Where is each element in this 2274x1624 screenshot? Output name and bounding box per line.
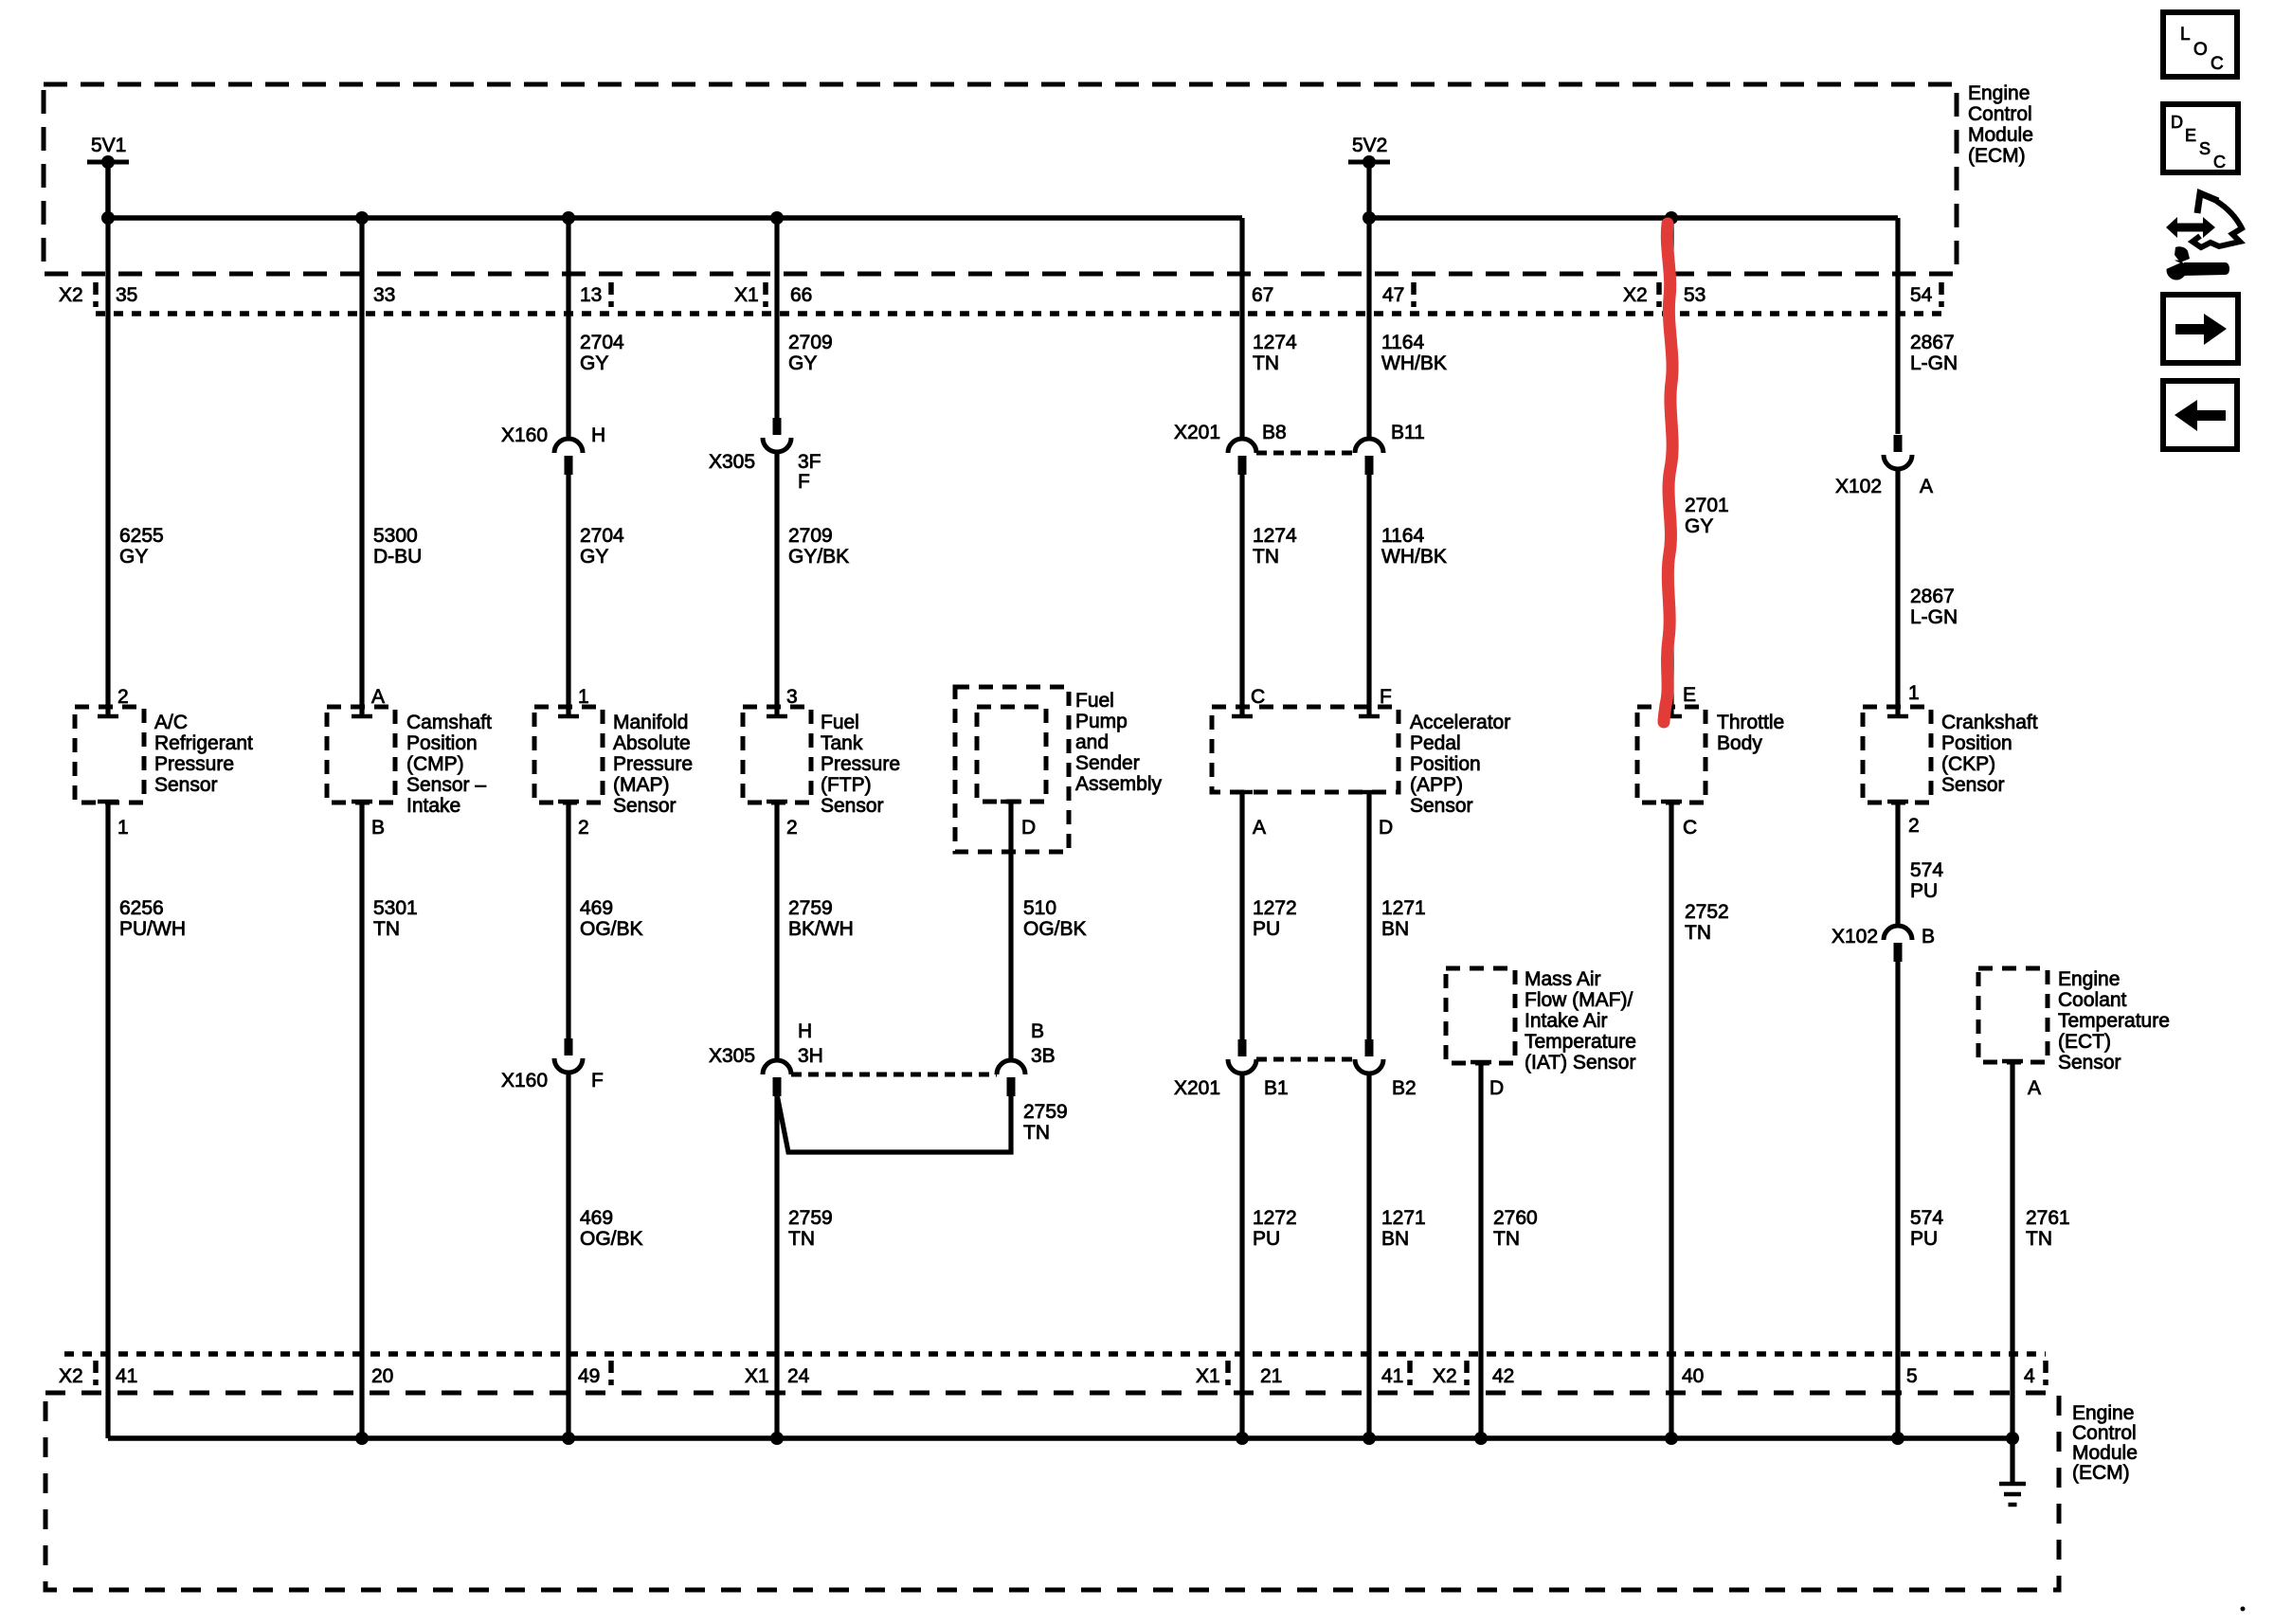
svg-text:33: 33 bbox=[373, 284, 395, 306]
svg-text:WH/BK: WH/BK bbox=[1381, 352, 1447, 374]
svg-text:X1: X1 bbox=[734, 284, 759, 306]
svg-text:OG/BK: OG/BK bbox=[1023, 918, 1087, 940]
svg-text:BN: BN bbox=[1381, 1228, 1409, 1250]
label 1164 WH/BK upper bbox=[1381, 332, 1447, 374]
svg-text:Position: Position bbox=[1410, 753, 1481, 775]
X201 mated connector dashed link top bbox=[1256, 451, 1355, 456]
pin label 3F / F (X305) bbox=[798, 451, 821, 493]
svg-text:1164: 1164 bbox=[1381, 332, 1424, 353]
svg-text:1274: 1274 bbox=[1253, 525, 1297, 547]
wire 2759 TN jog 3H to 3B bbox=[777, 1094, 1011, 1152]
svg-text:5: 5 bbox=[1906, 1365, 1918, 1387]
svg-text:Absolute: Absolute bbox=[613, 732, 691, 754]
svg-text:53: 53 bbox=[1684, 284, 1705, 306]
svg-text:TN: TN bbox=[1493, 1228, 1520, 1250]
svg-text:67: 67 bbox=[1252, 284, 1273, 306]
label Mass Air Flow (MAF)/ Intake Air Temperature (IAT) Sensor bbox=[1525, 968, 1636, 1074]
Crankshaft Position Sensor box bbox=[1863, 707, 1931, 803]
svg-text:E: E bbox=[2185, 126, 2196, 145]
connector X305 pin 3F bbox=[763, 418, 791, 452]
svg-text:B11: B11 bbox=[1391, 422, 1425, 443]
svg-text:2760: 2760 bbox=[1493, 1207, 1538, 1229]
svg-text:X305: X305 bbox=[709, 1045, 755, 1067]
svg-text:3B: 3B bbox=[1031, 1045, 1056, 1067]
ECM top box (Engine Control Module) bbox=[44, 84, 1957, 274]
svg-text:D: D bbox=[2171, 113, 2183, 132]
svg-text:X2: X2 bbox=[59, 1365, 83, 1387]
wire 1272 PU X201 B1 to pin21 bbox=[1239, 1074, 1244, 1438]
svg-text:Pressure: Pressure bbox=[154, 753, 234, 775]
svg-text:(ECM): (ECM) bbox=[1968, 145, 2026, 167]
svg-text:Control: Control bbox=[1968, 103, 2032, 125]
junction bottom bus/pin49 dot bbox=[562, 1432, 575, 1445]
connector X160 pin H bbox=[554, 439, 583, 475]
label 2760 TN bbox=[1493, 1207, 1538, 1250]
svg-text:TN: TN bbox=[1253, 546, 1279, 568]
label 2867 L-GN upper bbox=[1910, 332, 1958, 374]
svg-text:(APP): (APP) bbox=[1410, 774, 1463, 796]
wire 1271 BN APP pin D to X201 B2 bbox=[1366, 792, 1371, 1039]
svg-text:TN: TN bbox=[1685, 922, 1711, 944]
5V2 supply terminal bbox=[1348, 155, 1390, 169]
svg-text:H: H bbox=[798, 1020, 812, 1042]
5V1 supply terminal bbox=[87, 155, 129, 169]
svg-text:41: 41 bbox=[1381, 1365, 1403, 1387]
svg-text:X160: X160 bbox=[501, 424, 548, 446]
CKP pin 2 tick bbox=[1887, 800, 1908, 804]
svg-text:Camshaft: Camshaft bbox=[406, 712, 492, 733]
svg-text:X160: X160 bbox=[501, 1070, 548, 1092]
svg-text:3H: 3H bbox=[798, 1045, 823, 1067]
svg-text:GY: GY bbox=[119, 546, 148, 568]
wire 1164 WH/BK X201 B11 to APP pin F bbox=[1366, 475, 1371, 716]
bottom connector separator 4 bbox=[1407, 1361, 1413, 1385]
Manifold Absolute Pressure Sensor box bbox=[534, 707, 603, 803]
connector X201 pin B11 bbox=[1355, 439, 1383, 475]
label 1271 BN lower bbox=[1381, 1207, 1426, 1250]
wire 469 OG/BK MAP pin 2 to X160 F bbox=[566, 802, 570, 1038]
svg-text:Mass Air: Mass Air bbox=[1525, 968, 1601, 990]
svg-text:(ECM): (ECM) bbox=[2072, 1462, 2130, 1484]
bottom connector separator 5 bbox=[1464, 1361, 1470, 1385]
svg-text:Flow (MAF)/: Flow (MAF)/ bbox=[1525, 989, 1633, 1011]
svg-text:B8: B8 bbox=[1262, 422, 1287, 443]
svg-text:2: 2 bbox=[1908, 815, 1920, 837]
wire 574 PU X102 B to pin5 bbox=[1895, 961, 1900, 1438]
svg-text:Sensor: Sensor bbox=[1941, 774, 2005, 796]
label 1272 PU upper bbox=[1253, 897, 1297, 940]
svg-text:Sensor: Sensor bbox=[2058, 1052, 2121, 1074]
svg-text:Fuel: Fuel bbox=[821, 712, 859, 733]
wire 1274 TN pin67 to X201 B8 bbox=[1239, 218, 1244, 439]
wire 2752 TN throttle pin C to pin40 bbox=[1669, 802, 1673, 1438]
svg-text:Crankshaft: Crankshaft bbox=[1941, 712, 2038, 733]
svg-text:OG/BK: OG/BK bbox=[580, 918, 643, 940]
svg-text:Sensor: Sensor bbox=[1410, 795, 1473, 817]
svg-text:F: F bbox=[798, 471, 810, 493]
svg-text:Tank: Tank bbox=[821, 732, 863, 754]
top connector separator 1 bbox=[93, 282, 99, 307]
svg-text:42: 42 bbox=[1492, 1365, 1514, 1387]
wire 2701 GY pin53 to throttle body pin E bbox=[1669, 218, 1673, 716]
pin label H / 3H (X305) bbox=[798, 1020, 823, 1067]
svg-text:1271: 1271 bbox=[1381, 897, 1426, 919]
connector X201 pin B8 bbox=[1228, 439, 1256, 475]
back arrow icon box bbox=[2163, 381, 2237, 449]
svg-text:PU: PU bbox=[1253, 918, 1280, 940]
wire 2704 GY pin13 to X160 H bbox=[566, 218, 570, 439]
CMP pin A tick bbox=[352, 714, 372, 719]
svg-text:(MAP): (MAP) bbox=[613, 774, 670, 796]
svg-text:B: B bbox=[1031, 1020, 1044, 1042]
wire 2867 L-GN X102 A to CKP pin 1 bbox=[1895, 469, 1900, 716]
svg-text:X2: X2 bbox=[1433, 1365, 1457, 1387]
svg-text:PU: PU bbox=[1910, 1228, 1938, 1250]
wire 5301 TN CMP pin B to pin20 bbox=[359, 802, 364, 1438]
FTP pin 2 tick bbox=[767, 800, 787, 804]
A/C sensor pin 2 tick bbox=[98, 714, 118, 719]
label 1272 PU lower bbox=[1253, 1207, 1297, 1250]
svg-text:574: 574 bbox=[1910, 1207, 1943, 1229]
svg-text:B: B bbox=[371, 817, 385, 839]
svg-text:D: D bbox=[1021, 817, 1036, 839]
LOC icon box bbox=[2163, 12, 2237, 77]
MAP pin 1 tick bbox=[558, 714, 579, 719]
svg-text:40: 40 bbox=[1682, 1365, 1704, 1387]
svg-text:2704: 2704 bbox=[580, 525, 624, 547]
svg-text:H: H bbox=[591, 424, 605, 446]
svg-text:O: O bbox=[2193, 40, 2208, 60]
svg-text:PU/WH: PU/WH bbox=[119, 918, 186, 940]
connector X305 pin 3H bbox=[763, 1060, 791, 1096]
svg-text:X1: X1 bbox=[1196, 1365, 1220, 1387]
svg-text:Manifold: Manifold bbox=[613, 712, 688, 733]
X201 mated connector dashed link bottom bbox=[1256, 1057, 1355, 1062]
wire 2709 GY/BK X305 3F to FTP pin 3 bbox=[774, 452, 779, 716]
wire 2759 BK/WH FTP pin 2 to X305 3H bbox=[774, 802, 779, 1060]
svg-text:Sensor –: Sensor – bbox=[406, 774, 486, 796]
label 2704 GY upper bbox=[580, 332, 624, 374]
svg-text:(IAT) Sensor: (IAT) Sensor bbox=[1525, 1052, 1635, 1074]
Fuel Pump sender inner box bbox=[977, 707, 1046, 802]
svg-text:Pedal: Pedal bbox=[1410, 732, 1461, 754]
svg-text:54: 54 bbox=[1910, 284, 1933, 306]
svg-text:D: D bbox=[1489, 1077, 1504, 1099]
svg-text:35: 35 bbox=[116, 284, 137, 306]
junction bottom bus/pin24 dot bbox=[770, 1432, 784, 1445]
svg-text:Control: Control bbox=[2072, 1422, 2137, 1444]
svg-text:BN: BN bbox=[1381, 918, 1409, 940]
wire 2867 L-GN pin54 to X102 A bbox=[1895, 218, 1900, 434]
label A/C Refrigerant Pressure Sensor bbox=[154, 712, 253, 796]
svg-text:Accelerator: Accelerator bbox=[1410, 712, 1510, 733]
svg-text:and: and bbox=[1075, 731, 1109, 753]
svg-text:5V1: 5V1 bbox=[91, 135, 126, 156]
svg-text:469: 469 bbox=[580, 897, 613, 919]
top connector separator 5 bbox=[1656, 282, 1662, 307]
label 1271 BN upper bbox=[1381, 897, 1426, 940]
junction bottom bus/pin41b dot bbox=[1363, 1432, 1376, 1445]
svg-text:1272: 1272 bbox=[1253, 1207, 1297, 1229]
svg-text:Sensor: Sensor bbox=[154, 774, 218, 796]
svg-text:2: 2 bbox=[578, 817, 589, 839]
label 2752 TN bbox=[1685, 901, 1729, 944]
label 574 PU lower bbox=[1910, 1207, 1943, 1250]
svg-text:Coolant: Coolant bbox=[2058, 989, 2127, 1011]
svg-text:Position: Position bbox=[1941, 732, 2012, 754]
connector X201 pin B2 bbox=[1355, 1039, 1383, 1074]
label 469 OG/BK lower bbox=[580, 1207, 643, 1250]
svg-text:B2: B2 bbox=[1392, 1077, 1417, 1099]
svg-text:13: 13 bbox=[580, 284, 602, 306]
Fuel Tank Pressure Sensor box bbox=[743, 707, 811, 803]
Camshaft Position Sensor box bbox=[327, 707, 395, 803]
stray dot artifact bbox=[2241, 1607, 2246, 1612]
svg-text:A: A bbox=[1253, 817, 1266, 839]
Fuel Pump and Sender Assembly outer box bbox=[955, 687, 1069, 852]
svg-text:Engine: Engine bbox=[2058, 968, 2120, 990]
svg-text:2759: 2759 bbox=[788, 897, 833, 919]
svg-text:C: C bbox=[2213, 153, 2226, 171]
svg-text:OG/BK: OG/BK bbox=[580, 1228, 643, 1250]
svg-text:B1: B1 bbox=[1264, 1077, 1289, 1099]
label 1274 TN lower bbox=[1253, 525, 1297, 568]
svg-text:6255: 6255 bbox=[119, 525, 164, 547]
label 2709 GY/BK bbox=[788, 525, 849, 568]
Engine Coolant Temperature Sensor box bbox=[1978, 968, 2048, 1062]
svg-text:1164: 1164 bbox=[1381, 525, 1424, 547]
svg-text:X2: X2 bbox=[1623, 284, 1648, 306]
svg-text:X102: X102 bbox=[1832, 926, 1878, 947]
label 2759 TN jog bbox=[1023, 1101, 1068, 1144]
svg-text:Module: Module bbox=[1968, 124, 2033, 146]
svg-text:Pressure: Pressure bbox=[821, 753, 900, 775]
top connector separator 4 bbox=[1411, 282, 1417, 307]
label 574 PU upper bbox=[1910, 859, 1943, 902]
MAP pin 2 tick bbox=[558, 800, 579, 804]
svg-text:(FTP): (FTP) bbox=[821, 774, 872, 796]
svg-text:41: 41 bbox=[116, 1365, 137, 1387]
wire 6256 PU/WH A/C pin1 to pin41 bbox=[105, 802, 110, 1438]
svg-text:Temperature: Temperature bbox=[2058, 1010, 2170, 1032]
Fuel pump pin D tick bbox=[1001, 800, 1021, 804]
svg-text:GY: GY bbox=[1685, 515, 1713, 537]
svg-text:Position: Position bbox=[406, 732, 478, 754]
svg-text:2761: 2761 bbox=[2026, 1207, 2070, 1229]
DESC icon box bbox=[2163, 104, 2238, 172]
svg-text:2704: 2704 bbox=[580, 332, 624, 353]
svg-text:2: 2 bbox=[786, 817, 798, 839]
svg-text:(CKP): (CKP) bbox=[1941, 753, 1995, 775]
label 1274 TN upper bbox=[1253, 332, 1297, 374]
svg-text:2867: 2867 bbox=[1910, 332, 1955, 353]
junction bottom bus/pin20 dot bbox=[355, 1432, 369, 1445]
wire 2760 TN MAF pin D to pin42 bbox=[1478, 1062, 1483, 1438]
svg-text:2709: 2709 bbox=[788, 332, 833, 353]
APP pin C tick bbox=[1232, 714, 1253, 719]
svg-text:TN: TN bbox=[373, 918, 400, 940]
label 2761 TN bbox=[2026, 1207, 2070, 1250]
junction bus/pin66 dot bbox=[770, 211, 784, 225]
svg-text:A: A bbox=[1920, 476, 1933, 497]
svg-text:47: 47 bbox=[1382, 284, 1404, 306]
svg-text:L-GN: L-GN bbox=[1910, 606, 1958, 628]
label 2759 BK/WH bbox=[788, 897, 854, 940]
APP pin F tick bbox=[1359, 714, 1380, 719]
svg-text:L-GN: L-GN bbox=[1910, 352, 1958, 374]
svg-text:Fuel: Fuel bbox=[1075, 690, 1114, 712]
svg-text:1271: 1271 bbox=[1381, 1207, 1426, 1229]
wire 510 OG/BK fuel pump D to X305 3B bbox=[1008, 802, 1013, 1060]
svg-text:Engine: Engine bbox=[2072, 1402, 2134, 1424]
svg-text:A/C: A/C bbox=[154, 712, 188, 733]
svg-text:2759: 2759 bbox=[1023, 1101, 1068, 1123]
svg-text:3F: 3F bbox=[798, 451, 821, 473]
svg-text:A: A bbox=[2028, 1077, 2041, 1099]
wire 2709 GY pin66 to X305 3F bbox=[774, 218, 779, 420]
bottom connector separator 2 bbox=[608, 1361, 614, 1385]
wire 5300 D-BU pin33 to CMP pin A bbox=[359, 218, 364, 716]
APP pin D tick bbox=[1359, 790, 1380, 795]
label Manifold Absolute Pressure (MAP) Sensor bbox=[613, 712, 693, 817]
wire 2761 TN ECT pin A to pin4 bbox=[2010, 1061, 2014, 1438]
label Engine Control Module (ECM) bottom right bbox=[2072, 1402, 2138, 1484]
svg-text:Body: Body bbox=[1717, 732, 1762, 754]
svg-text:66: 66 bbox=[790, 284, 812, 306]
forward arrow icon box bbox=[2163, 295, 2238, 363]
label 2867 L-GN lower bbox=[1910, 586, 1958, 628]
label Fuel Tank Pressure (FTP) Sensor bbox=[821, 712, 900, 817]
junction bus/pin33 dot bbox=[355, 211, 369, 225]
svg-text:TN: TN bbox=[2026, 1228, 2052, 1250]
wire 1272 PU APP pin A to X201 B1 bbox=[1239, 792, 1244, 1039]
wire pin4 to ground bbox=[2010, 1438, 2014, 1483]
svg-text:5300: 5300 bbox=[373, 525, 418, 547]
svg-text:X201: X201 bbox=[1174, 1077, 1220, 1099]
svg-text:469: 469 bbox=[580, 1207, 613, 1229]
junction bottom bus/pin4 dot bbox=[2006, 1432, 2019, 1445]
svg-text:X1: X1 bbox=[745, 1365, 769, 1387]
APP pin A tick bbox=[1232, 790, 1253, 795]
wire 6255 GY pin35 to A/C sensor pin 2 bbox=[105, 218, 110, 716]
connector X305 pin 3B bbox=[997, 1060, 1025, 1096]
svg-text:WH/BK: WH/BK bbox=[1381, 546, 1447, 568]
label 2759 TN lower bbox=[788, 1207, 833, 1250]
wire 5V2 bus (right top bus) bbox=[1369, 215, 1898, 221]
svg-text:510: 510 bbox=[1023, 897, 1056, 919]
ECT pin A tick bbox=[2002, 1059, 2023, 1064]
svg-text:5301: 5301 bbox=[373, 897, 418, 919]
svg-text:Throttle: Throttle bbox=[1717, 712, 1784, 733]
top connector separator 2 bbox=[608, 282, 614, 307]
svg-text:49: 49 bbox=[578, 1365, 600, 1387]
svg-text:21: 21 bbox=[1260, 1365, 1282, 1387]
label Fuel Pump and Sender Assembly bbox=[1075, 690, 1163, 795]
svg-text:D: D bbox=[1379, 817, 1393, 839]
svg-text:1274: 1274 bbox=[1253, 332, 1297, 353]
svg-text:4: 4 bbox=[2024, 1365, 2035, 1387]
top connector separator 6 bbox=[1939, 282, 1944, 307]
top connector strip dotted line bbox=[96, 311, 1941, 316]
svg-text:24: 24 bbox=[787, 1365, 810, 1387]
svg-text:2867: 2867 bbox=[1910, 586, 1955, 607]
svg-text:Assembly: Assembly bbox=[1075, 773, 1163, 795]
connector X102 pin A bbox=[1884, 435, 1912, 469]
svg-text:GY: GY bbox=[580, 546, 608, 568]
label Accelerator Pedal Position (APP) Sensor bbox=[1410, 712, 1510, 817]
svg-text:574: 574 bbox=[1910, 859, 1943, 881]
svg-text:Module: Module bbox=[2072, 1442, 2138, 1464]
wire 5V1 bus (left top bus) bbox=[108, 162, 1242, 218]
svg-text:Temperature: Temperature bbox=[1525, 1031, 1636, 1053]
svg-text:Sensor: Sensor bbox=[613, 795, 677, 817]
junction bottom bus/pin42 dot bbox=[1474, 1432, 1488, 1445]
bottom connector separator 3 bbox=[1225, 1361, 1231, 1385]
svg-text:X305: X305 bbox=[709, 451, 755, 473]
label Engine Coolant Temperature (ECT) Sensor bbox=[2058, 968, 2170, 1074]
svg-text:C: C bbox=[2211, 54, 2224, 74]
bottom connector strip dotted line bbox=[64, 1351, 2046, 1357]
svg-text:BK/WH: BK/WH bbox=[788, 918, 854, 940]
svg-text:PU: PU bbox=[1910, 880, 1938, 902]
svg-text:Engine: Engine bbox=[1968, 82, 2030, 104]
junction 5V2/bus dot bbox=[1363, 211, 1376, 225]
svg-text:2759: 2759 bbox=[788, 1207, 833, 1229]
svg-text:F: F bbox=[591, 1070, 604, 1092]
Mass Air Flow / Intake Air Temperature Sensor box bbox=[1446, 968, 1515, 1063]
svg-text:GY: GY bbox=[580, 352, 608, 374]
svg-text:5V2: 5V2 bbox=[1352, 135, 1387, 156]
label Crankshaft Position (CKP) Sensor bbox=[1941, 712, 2038, 796]
CKP pin 1 tick bbox=[1887, 714, 1908, 719]
svg-text:2701: 2701 bbox=[1685, 495, 1729, 516]
svg-text:6256: 6256 bbox=[119, 897, 164, 919]
junction bottom bus/pin5 dot bbox=[1891, 1432, 1904, 1445]
X305 mated connector dashed link bottom bbox=[791, 1073, 997, 1077]
label 510 OG/BK bbox=[1023, 897, 1087, 940]
red highlighter squiggle over wire 2701 GY bbox=[1664, 224, 1672, 722]
wrench and arrows service icon bbox=[2162, 193, 2242, 280]
label 469 OG/BK upper bbox=[580, 897, 643, 940]
svg-text:X201: X201 bbox=[1174, 422, 1220, 443]
connector X102 pin B bbox=[1884, 926, 1912, 962]
Throttle body pin C tick bbox=[1661, 800, 1682, 804]
svg-text:X2: X2 bbox=[59, 284, 83, 306]
svg-text:TN: TN bbox=[1023, 1122, 1050, 1144]
connector X160 pin F bbox=[554, 1038, 583, 1073]
svg-text:Intake: Intake bbox=[406, 795, 460, 817]
svg-text:(ECT): (ECT) bbox=[2058, 1031, 2111, 1053]
A/C sensor pin 1 tick bbox=[98, 800, 118, 804]
junction bus/pin13 dot bbox=[562, 211, 575, 225]
svg-text:Refrigerant: Refrigerant bbox=[154, 732, 253, 754]
junction 5V1/bus dot bbox=[101, 211, 115, 225]
svg-text:Pump: Pump bbox=[1075, 711, 1128, 732]
svg-text:PU: PU bbox=[1253, 1228, 1280, 1250]
label Camshaft Position (CMP) Sensor - Intake bbox=[406, 712, 492, 817]
Throttle body pin E tick bbox=[1661, 714, 1682, 719]
svg-text:B: B bbox=[1922, 926, 1935, 947]
svg-text:Sensor: Sensor bbox=[821, 795, 884, 817]
svg-text:1272: 1272 bbox=[1253, 897, 1297, 919]
connector X201 pin B1 bbox=[1228, 1039, 1256, 1074]
svg-text:2752: 2752 bbox=[1685, 901, 1729, 923]
svg-text:(CMP): (CMP) bbox=[406, 753, 464, 775]
top connector separator 3 bbox=[763, 282, 768, 307]
label Engine Control Module (ECM) top right bbox=[1968, 82, 2033, 167]
svg-text:GY/BK: GY/BK bbox=[788, 546, 849, 568]
svg-text:Intake Air: Intake Air bbox=[1525, 1010, 1608, 1032]
